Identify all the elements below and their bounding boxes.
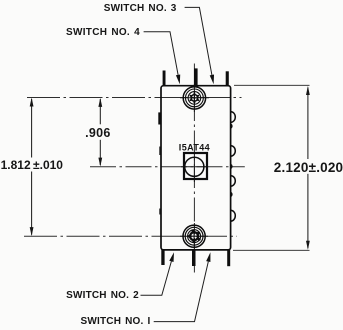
svg-text:2.120±.020: 2.120±.020: [274, 160, 343, 175]
svg-text:SWITCH NO. 2: SWITCH NO. 2: [66, 290, 139, 301]
svg-text:.906: .906: [85, 126, 111, 140]
svg-text:I5AT44: I5AT44: [179, 142, 210, 152]
svg-text:1.812 ±.010: 1.812 ±.010: [1, 158, 64, 172]
svg-text:SWITCH NO. I: SWITCH NO. I: [81, 316, 151, 327]
svg-text:SWITCH NO. 3: SWITCH NO. 3: [104, 3, 177, 14]
svg-text:SWITCH NO. 4: SWITCH NO. 4: [66, 27, 140, 38]
